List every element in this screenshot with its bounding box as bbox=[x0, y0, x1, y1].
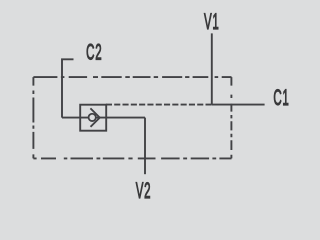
svg-text:C2: C2 bbox=[86, 40, 102, 65]
port C2 stub wire bbox=[62, 59, 74, 117]
svg-text:V2: V2 bbox=[136, 178, 152, 203]
svg-text:V1: V1 bbox=[204, 9, 220, 34]
valve body enclosure right edge bbox=[230, 77, 232, 158]
port C1 wire bbox=[212, 104, 265, 106]
svg-text:C1: C1 bbox=[273, 85, 289, 110]
valve body enclosure bottom edge bbox=[33, 157, 231, 159]
port V1 wire bbox=[211, 33, 213, 104]
check valve box bbox=[80, 105, 106, 131]
valve body enclosure (dash-dot boundary) top edge bbox=[33, 76, 231, 78]
wire C2 to check valve to V2 junction bbox=[62, 117, 145, 119]
check valve ball bbox=[89, 114, 96, 121]
wire down to port V2 bbox=[144, 118, 146, 175]
valve body enclosure left edge bbox=[32, 77, 34, 158]
check valve seat (chevron) bbox=[90, 108, 99, 127]
pilot line (dashed) from valve to V1/C1 junction bbox=[106, 104, 212, 106]
